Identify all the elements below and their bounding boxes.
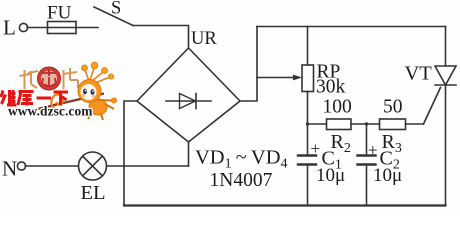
wire top rail down to RP	[307, 27, 309, 66]
capacitor C1 branch wire	[307, 124, 309, 154]
watermark bow line	[33, 94, 104, 111]
mascot crown balls	[82, 65, 88, 71]
switch S blade	[94, 7, 133, 26]
watermark char xin	[42, 69, 56, 86]
top rail	[257, 26, 446, 28]
capacitor C2 branch wire	[366, 124, 368, 154]
svg-text:VT: VT	[405, 63, 433, 85]
svg-text:30k: 30k	[316, 77, 346, 98]
resistor R2 body	[327, 119, 352, 130]
wire VT cathode down	[445, 85, 447, 205]
junction node R2-R3	[365, 122, 368, 125]
terminal L	[19, 23, 27, 31]
mascot tail	[51, 95, 66, 111]
watermark text weikuyixia	[1, 90, 68, 106]
wire bridge right vertex to top rail	[240, 27, 257, 102]
svg-text:FU: FU	[47, 3, 72, 24]
wire N to lamp	[25, 165, 78, 167]
thyristor VT cathode bar	[435, 84, 456, 86]
lamp EL	[79, 152, 107, 180]
svg-text:www.dzsc.com: www.dzsc.com	[8, 104, 93, 119]
terminal N	[17, 162, 25, 170]
potentiometer RP body	[302, 65, 314, 92]
diode inside bridge	[166, 100, 211, 102]
wire RP bottom down	[307, 92, 309, 125]
svg-text:UR: UR	[191, 29, 217, 49]
mascot body	[89, 99, 107, 115]
thyristor VT gate wire	[424, 88, 441, 125]
mascot legs	[88, 104, 114, 120]
mascot arm	[98, 99, 112, 102]
watermark char pian	[64, 68, 79, 89]
svg-text:100: 100	[323, 97, 352, 118]
svg-text:L: L	[3, 16, 16, 40]
mascot crown stalks	[85, 68, 110, 83]
bottom rail	[124, 204, 446, 206]
mascot face	[81, 84, 97, 100]
RP wiper arrow	[257, 77, 295, 79]
watermark char zhao	[20, 70, 39, 89]
thyristor VT triangle	[435, 66, 456, 85]
wire switch to bridge top	[133, 26, 189, 49]
junction node R2 left	[306, 122, 309, 125]
capacitor C1 plates	[298, 154, 316, 156]
svg-text:+: +	[368, 141, 378, 160]
capacitor C2 plates	[358, 154, 376, 156]
svg-text:EL: EL	[81, 182, 106, 204]
wire lamp to bridge bottom	[107, 165, 189, 167]
watermark group	[1, 62, 117, 120]
svg-text:N: N	[2, 157, 17, 181]
svg-text:10μ: 10μ	[316, 165, 345, 186]
svg-text:S: S	[111, 0, 121, 19]
wire bridge bottom vertex down	[188, 142, 190, 166]
svg-text:10μ: 10μ	[373, 165, 402, 186]
svg-text:VD1 ~ VD4: VD1 ~ VD4	[195, 147, 288, 172]
mascot eyes	[83, 89, 87, 95]
resistor R3 body	[380, 119, 406, 130]
svg-text:+: +	[311, 139, 321, 158]
wire R3 to gate bend	[406, 123, 424, 125]
svg-text:50: 50	[383, 97, 403, 118]
fuse FU	[48, 22, 77, 34]
mascot cheeks	[82, 94, 85, 97]
wire L to fuse	[27, 27, 98, 29]
wire top rail down to VT anode	[445, 27, 447, 67]
wire R2 to R3	[351, 123, 380, 125]
mascot head	[78, 80, 101, 103]
watermark seal disc	[38, 67, 61, 90]
wire bridge left vertex to left rail	[124, 101, 137, 205]
svg-text:1N4007: 1N4007	[210, 170, 273, 191]
wire RP to R2	[308, 123, 327, 125]
bridge rectifier UR diamond	[137, 48, 240, 142]
